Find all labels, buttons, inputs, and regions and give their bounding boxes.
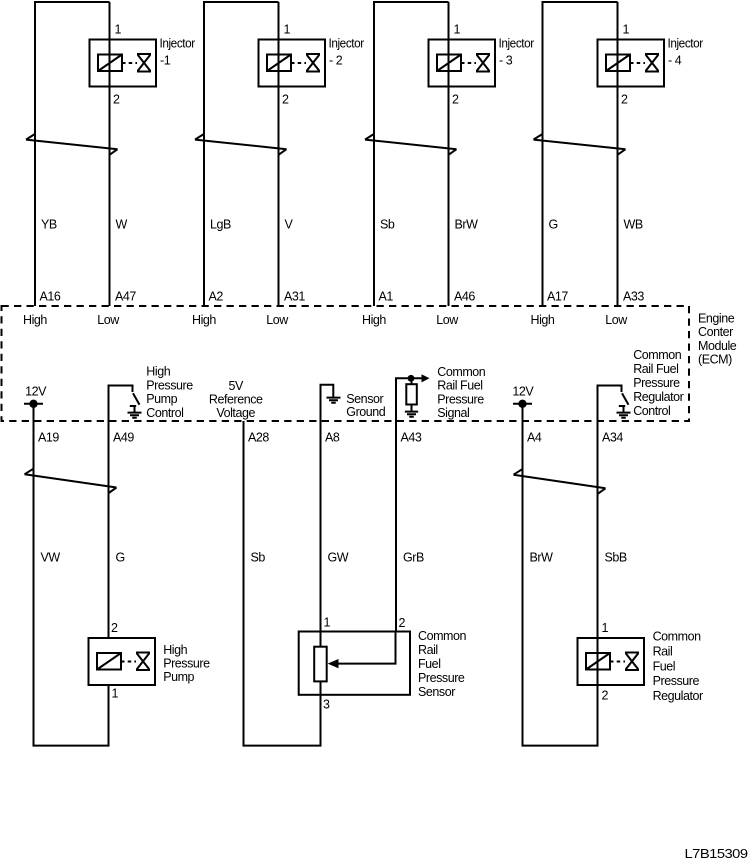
svg-text:Common: Common: [418, 629, 467, 643]
svg-text:12V: 12V: [25, 384, 47, 398]
svg-text:GrB: GrB: [403, 551, 424, 565]
wire injector 3 high side (loop top): [374, 2, 449, 306]
svg-text:VW: VW: [41, 551, 61, 565]
svg-text:A28: A28: [248, 431, 269, 445]
svg-text:Low: Low: [266, 313, 289, 327]
svg-text:Injector: Injector: [499, 36, 535, 50]
svg-text:Sensor: Sensor: [346, 392, 383, 406]
svg-text:Control: Control: [633, 404, 670, 418]
svg-text:A8: A8: [325, 431, 340, 445]
svg-text:LgB: LgB: [210, 218, 231, 232]
svg-text:Regulator: Regulator: [653, 689, 703, 703]
svg-text:5V: 5V: [229, 379, 245, 393]
svg-text:- 2: - 2: [329, 53, 343, 67]
svg-text:2: 2: [282, 93, 289, 107]
wire injector 3 low side: [448, 2, 450, 306]
ECM module dashed box: [2, 306, 690, 421]
svg-text:Module: Module: [698, 339, 737, 353]
svg-text:- 3: - 3: [499, 53, 513, 67]
svg-text:Common: Common: [633, 348, 682, 362]
injector 2 symbol: [259, 40, 326, 87]
svg-text:High: High: [163, 643, 187, 657]
svg-text:2: 2: [452, 93, 459, 107]
svg-text:V: V: [285, 218, 294, 232]
svg-text:-1: -1: [160, 53, 171, 67]
svg-text:Pressure: Pressure: [418, 671, 465, 685]
svg-text:Rail: Rail: [653, 644, 673, 658]
wire A34 to regulator pin 1 (SbB): [597, 421, 599, 638]
wire A4 12V to regulator pin 2 (BrW): [523, 404, 598, 746]
svg-text:Pressure: Pressure: [146, 378, 193, 392]
svg-text:G: G: [549, 218, 558, 232]
svg-text:Fuel: Fuel: [418, 657, 441, 671]
switch high pressure pump control A49: [109, 386, 140, 422]
sensor wiper arrow: [338, 632, 396, 664]
svg-text:High: High: [146, 365, 170, 379]
svg-text:- 4: - 4: [668, 53, 682, 67]
svg-text:A49: A49: [113, 431, 134, 445]
connector in-line injector 1: [26, 134, 118, 156]
svg-text:Engine: Engine: [698, 312, 735, 326]
svg-text:High: High: [192, 313, 216, 327]
wire injector 2 high side (loop top): [204, 2, 279, 306]
wire injector 1 low side: [109, 2, 111, 306]
svg-text:Signal: Signal: [437, 406, 469, 420]
svg-text:Rail Fuel: Rail Fuel: [437, 379, 482, 393]
svg-text:1: 1: [623, 23, 630, 37]
svg-text:G: G: [116, 551, 125, 565]
injector 1 symbol: [90, 40, 157, 87]
12V supply tap A19: [24, 403, 43, 405]
svg-text:2: 2: [111, 621, 118, 635]
connector in-line injector 4: [534, 134, 626, 156]
svg-text:Sensor: Sensor: [418, 685, 455, 699]
svg-text:Control: Control: [146, 406, 183, 420]
svg-text:High: High: [23, 313, 47, 327]
svg-text:High: High: [531, 313, 555, 327]
svg-text:WB: WB: [624, 218, 643, 232]
svg-text:SbB: SbB: [605, 551, 627, 565]
wire A8 ground to sensor pin 1 (GW): [320, 421, 322, 632]
injector 3 symbol: [429, 40, 496, 87]
arrow signal output: [422, 374, 430, 382]
connector in-line injector 3: [365, 134, 457, 156]
wire injector 4 low side: [617, 2, 619, 306]
sensor element resistor: [320, 632, 322, 647]
high pressure pump symbol: [89, 638, 156, 685]
wire A43 signal to sensor pin 2 (GrB): [395, 421, 397, 632]
svg-text:Common: Common: [437, 365, 486, 379]
svg-text:(ECM): (ECM): [698, 352, 732, 366]
connector in-line pump: [25, 468, 117, 493]
svg-text:A2: A2: [209, 290, 224, 304]
svg-text:Pressure: Pressure: [437, 392, 484, 406]
12V supply tap A4: [513, 403, 532, 405]
svg-text:1: 1: [284, 23, 291, 37]
svg-text:Low: Low: [605, 313, 628, 327]
svg-text:Voltage: Voltage: [216, 406, 255, 420]
svg-text:Sb: Sb: [251, 551, 266, 565]
svg-text:3: 3: [323, 698, 330, 712]
svg-text:A1: A1: [379, 290, 394, 304]
svg-text:BrW: BrW: [530, 551, 554, 565]
svg-text:Conter: Conter: [698, 325, 733, 339]
svg-text:2: 2: [602, 689, 609, 703]
svg-text:12V: 12V: [512, 384, 534, 398]
svg-text:High: High: [362, 313, 386, 327]
svg-text:A31: A31: [284, 290, 305, 304]
resistor pressure signal A43: [411, 378, 413, 384]
svg-text:1: 1: [324, 616, 331, 630]
wire injector 2 low side: [278, 2, 280, 306]
svg-text:A19: A19: [38, 431, 59, 445]
svg-text:A43: A43: [401, 431, 422, 445]
svg-text:2: 2: [399, 616, 406, 630]
svg-text:1: 1: [115, 23, 122, 37]
svg-text:Regulator: Regulator: [633, 390, 683, 404]
svg-text:1: 1: [454, 23, 461, 37]
svg-text:A46: A46: [454, 290, 475, 304]
svg-text:A16: A16: [40, 290, 61, 304]
svg-text:1: 1: [112, 687, 119, 701]
svg-text:2: 2: [621, 93, 628, 107]
svg-text:L7B15309: L7B15309: [685, 847, 749, 860]
svg-text:YB: YB: [41, 218, 57, 232]
fuel pressure regulator symbol: [578, 638, 645, 685]
svg-text:A47: A47: [115, 290, 136, 304]
switch fuel pressure regulator control A34: [598, 386, 629, 422]
svg-text:Pressure: Pressure: [633, 376, 680, 390]
svg-text:A4: A4: [527, 431, 542, 445]
svg-text:BrW: BrW: [455, 218, 479, 232]
svg-text:1: 1: [602, 621, 609, 635]
wire injector 1 high side (loop top): [35, 2, 110, 306]
node A43 signal junction: [396, 378, 423, 421]
ground sensor ground A8: [321, 385, 334, 421]
wire A19 12V to pump (VW): [34, 404, 109, 746]
svg-text:2: 2: [113, 93, 120, 107]
svg-text:Low: Low: [436, 313, 459, 327]
svg-text:Rail Fuel: Rail Fuel: [633, 362, 678, 376]
pressure sensor box: [299, 632, 410, 695]
svg-text:Pump: Pump: [146, 392, 177, 406]
wire injector 4 high side (loop top): [543, 2, 618, 306]
svg-text:Sb: Sb: [380, 218, 395, 232]
svg-text:W: W: [116, 218, 128, 232]
ground A43 resistor: [405, 412, 418, 417]
ground regulator control switch: [617, 413, 631, 418]
injector 4 symbol: [598, 40, 665, 87]
svg-text:GW: GW: [328, 551, 349, 565]
connector in-line regulator: [514, 469, 606, 495]
connector in-line injector 2: [195, 134, 287, 156]
svg-text:Injector: Injector: [160, 36, 196, 50]
svg-text:A33: A33: [623, 290, 644, 304]
svg-text:Low: Low: [97, 313, 120, 327]
svg-text:Injector: Injector: [329, 36, 365, 50]
svg-text:Ground: Ground: [346, 405, 385, 419]
svg-text:Pressure: Pressure: [163, 657, 210, 671]
svg-text:Common: Common: [653, 630, 702, 644]
svg-text:Fuel: Fuel: [653, 659, 676, 673]
wire A28 5V to sensor pin 3 (Sb): [244, 421, 321, 746]
svg-text:A17: A17: [547, 290, 568, 304]
svg-text:Pump: Pump: [163, 670, 194, 684]
svg-text:A34: A34: [602, 431, 623, 445]
svg-text:Injector: Injector: [668, 36, 704, 50]
svg-text:Pressure: Pressure: [653, 674, 700, 688]
ground pump control switch: [128, 413, 142, 418]
wire A49 to pump pin 2 (G): [108, 421, 110, 638]
svg-text:Reference: Reference: [209, 393, 263, 407]
svg-text:Rail: Rail: [418, 643, 438, 657]
